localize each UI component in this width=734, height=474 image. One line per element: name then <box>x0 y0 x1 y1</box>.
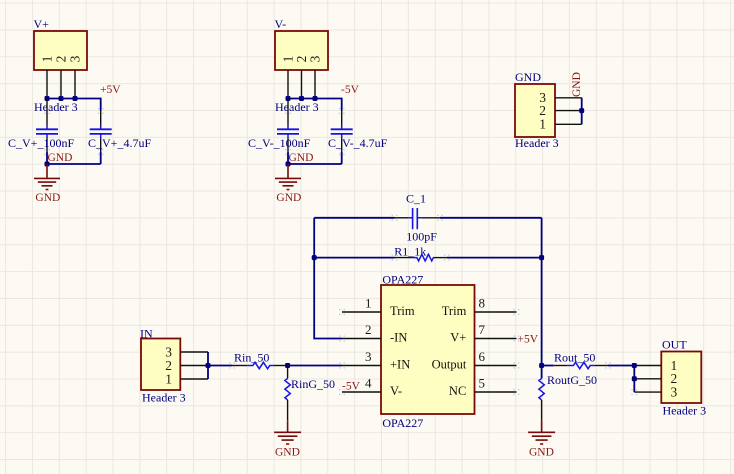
capacitor C_V+_4.7uF <box>90 111 112 153</box>
svg-text:3: 3 <box>308 55 323 62</box>
svg-text:+5V: +5V <box>100 84 121 96</box>
op-amp comment OPA227 <box>382 416 423 430</box>
pin 7 stub <box>475 338 517 340</box>
pin name V- (4) <box>390 384 402 398</box>
svg-text:NC: NC <box>449 384 466 398</box>
svg-text:2: 2 <box>365 322 372 337</box>
pin 2 number <box>539 103 546 118</box>
header V+ designator label <box>34 17 50 31</box>
wire feedback top right <box>440 217 542 219</box>
junction feedback right at R1 <box>539 255 544 260</box>
junction at pin 2 <box>579 108 584 113</box>
pin 3 number (rotated) <box>68 55 83 62</box>
wire feedback top left <box>314 217 394 219</box>
pin name NC (5) <box>449 384 466 398</box>
op-amp U1 body <box>381 285 475 414</box>
svg-text:100pF: 100pF <box>406 230 437 244</box>
svg-text:3: 3 <box>365 349 372 364</box>
capacitor C_V-_100nF label <box>248 136 311 150</box>
svg-text:V-: V- <box>390 384 402 398</box>
resistor R1 <box>395 254 447 261</box>
svg-text:4: 4 <box>365 376 372 391</box>
junction at pin1/rail <box>45 96 50 101</box>
header V- (Header 3) body <box>275 31 328 70</box>
capacitor C_V+_100nF label <box>8 136 74 150</box>
svg-text:1: 1 <box>165 371 172 386</box>
capacitor C_1 value label 100pF <box>406 230 437 244</box>
svg-text:1: 1 <box>539 117 546 132</box>
pin 3 number <box>671 384 678 399</box>
svg-text:+5V: +5V <box>518 334 539 346</box>
svg-text:V+: V+ <box>34 17 50 31</box>
svg-text:Header 3: Header 3 <box>663 404 707 418</box>
pin 2 number <box>365 322 372 337</box>
junction at IN pin 2 <box>206 363 211 368</box>
pin 2 number <box>671 371 678 386</box>
junction at pin2/rail <box>299 96 304 101</box>
capacitor C_V+_4.7uF label <box>88 136 151 150</box>
ground power-port label GND <box>529 446 554 458</box>
pin name V+ (7) <box>450 331 466 345</box>
svg-text:GND: GND <box>289 152 314 164</box>
pin 3 number (rotated) <box>308 55 323 62</box>
pin 1 number <box>671 358 678 373</box>
ground power-port label GND <box>275 446 300 458</box>
svg-text:Header 3: Header 3 <box>34 100 78 114</box>
header V- comment label <box>275 100 319 114</box>
wire GND rail below caps <box>288 152 342 164</box>
svg-text:1: 1 <box>365 296 372 311</box>
junction at pin1/rail <box>286 96 291 101</box>
ground symbol V+ section <box>34 164 60 190</box>
svg-text:3: 3 <box>671 384 678 399</box>
pin name Output (6) <box>432 358 467 372</box>
wire GND rail below caps <box>47 152 101 164</box>
pin 1 number <box>165 371 172 386</box>
svg-text:Trim: Trim <box>442 304 467 318</box>
svg-text:8: 8 <box>479 296 486 311</box>
wire joining GND header pins <box>581 98 583 125</box>
net label GND (rotated) <box>571 72 583 97</box>
header V+ (Header 3) body <box>34 31 87 70</box>
wire joining OUT header pins <box>633 366 635 393</box>
resistor RoutG_50 label <box>547 373 597 387</box>
junction output node <box>539 363 544 368</box>
ground power-port label GND <box>35 192 60 204</box>
resistor Rin_50 left lead <box>232 365 247 367</box>
junction feedback left <box>312 255 317 260</box>
svg-text:7: 7 <box>479 322 486 337</box>
pin 6 stub <box>475 365 517 367</box>
svg-text:V-: V- <box>275 17 287 31</box>
capacitor C_1 <box>395 208 441 229</box>
pin 4 number <box>365 376 372 391</box>
svg-text:-5V: -5V <box>342 380 361 392</box>
svg-text:GND: GND <box>35 192 60 204</box>
svg-text:C_V+_100nF: C_V+_100nF <box>8 136 74 150</box>
pin 5 number <box>479 376 486 391</box>
net label -5V at pin 4 <box>342 380 361 392</box>
pin name -IN (2) <box>390 331 407 345</box>
pin 2 number (rotated) <box>294 56 309 63</box>
pin 4 stub <box>342 391 381 393</box>
ground symbol input <box>274 420 301 444</box>
svg-text:GND: GND <box>571 72 583 97</box>
svg-text:Header 3: Header 3 <box>275 100 319 114</box>
header OUT (Header 3) body <box>661 352 701 404</box>
pin name +IN (3) <box>390 358 410 372</box>
svg-text:GND: GND <box>275 446 300 458</box>
svg-text:Output: Output <box>432 358 467 372</box>
op-amp designator OPA227 <box>382 273 423 287</box>
junction at pin2/rail <box>59 96 64 101</box>
svg-text:GND: GND <box>515 70 541 84</box>
resistor RinG_50 label <box>291 377 335 391</box>
wire output node to Rout <box>542 365 554 367</box>
header IN (Header 3) body <box>141 339 180 391</box>
pin 1 number (rotated) <box>281 56 296 63</box>
wire junction to op-amp pin 3 <box>288 365 342 367</box>
svg-text:V+: V+ <box>450 331 466 345</box>
pin name Trim (8) <box>442 304 467 318</box>
header GND (Header 3) body <box>515 84 555 137</box>
pin 3 number <box>165 344 172 359</box>
capacitor C_V+_100nF <box>36 99 58 153</box>
svg-text:Header 3: Header 3 <box>142 390 186 404</box>
pin 1 number (rotated) <box>40 56 55 63</box>
svg-text:3: 3 <box>68 55 83 62</box>
resistor Rin_50 zigzag <box>247 362 274 368</box>
net label GND <box>48 152 73 164</box>
wire IN to Rin <box>208 365 232 367</box>
header OUT designator label <box>662 338 687 352</box>
pin name Trim (1) <box>390 304 415 318</box>
pin stubs of header V- <box>288 70 315 99</box>
header GND designator label <box>515 70 541 84</box>
pin 2 stub <box>342 338 381 340</box>
svg-text:RoutG_50: RoutG_50 <box>547 373 597 387</box>
pin 1 number <box>539 117 546 132</box>
svg-text:2: 2 <box>54 56 69 63</box>
pin stubs of header V+ <box>47 70 75 99</box>
capacitor C_V-_4.7uF label <box>328 136 388 150</box>
ground power-port label GND <box>276 192 301 204</box>
header V+ comment label <box>34 100 78 114</box>
pin 6 number <box>479 349 486 364</box>
svg-text:Header 3: Header 3 <box>515 136 559 150</box>
resistor RinG_50 (vertical) <box>285 366 290 421</box>
net label GND <box>289 152 314 164</box>
resistor RoutG_50 (vertical) <box>539 366 544 421</box>
svg-text:C_V-_4.7uF: C_V-_4.7uF <box>328 136 388 150</box>
wire +5V rail <box>47 99 101 111</box>
svg-text:GND: GND <box>529 446 554 458</box>
svg-text:GND: GND <box>48 152 73 164</box>
junction input node <box>285 363 290 368</box>
capacitor C_V-_100nF <box>277 99 299 153</box>
wire feedback right vertical <box>541 218 543 366</box>
ground symbol V- section <box>275 164 301 190</box>
svg-text:C_1: C_1 <box>406 192 426 206</box>
pin stubs of header OUT <box>634 366 661 393</box>
svg-text:+IN: +IN <box>390 358 410 372</box>
pin 1 stub <box>342 311 381 313</box>
wire R1 right lead <box>447 257 542 259</box>
wire joining IN header pins <box>207 352 209 379</box>
wire R1 left lead <box>314 257 394 259</box>
pin 2 number <box>165 358 172 373</box>
svg-text:GND: GND <box>276 192 301 204</box>
net label -5V <box>341 84 360 96</box>
ground symbol output <box>528 420 555 444</box>
resistor Rin_50 label <box>234 351 269 365</box>
header IN comment label <box>142 390 186 404</box>
capacitor C_1 label <box>406 192 426 206</box>
pin 2 number (rotated) <box>54 56 69 63</box>
header IN designator label <box>140 326 153 340</box>
svg-text:OPA227: OPA227 <box>382 416 423 430</box>
svg-text:-IN: -IN <box>390 331 407 345</box>
resistor Rout_50 right lead <box>594 365 608 367</box>
pin 7 number <box>479 322 486 337</box>
resistor R1 label <box>394 244 426 258</box>
svg-text:5: 5 <box>479 376 486 391</box>
pin stubs of header GND <box>555 98 582 125</box>
svg-text:C_V+_4.7uF: C_V+_4.7uF <box>88 136 151 150</box>
header V- designator label <box>275 17 287 31</box>
wire Rout to OUT header <box>608 365 634 367</box>
junction at OUT pin 1 <box>632 363 637 368</box>
pin 3 number <box>365 349 372 364</box>
pin 1 number <box>365 296 372 311</box>
pin 3 stub <box>342 365 381 367</box>
resistor Rout_50 left lead <box>554 365 568 367</box>
svg-text:1: 1 <box>40 56 55 63</box>
header GND comment label <box>515 136 559 150</box>
pin 3 number <box>539 90 546 105</box>
resistor Rout_50 label <box>554 351 595 365</box>
pin 8 number <box>479 296 486 311</box>
pin endpoint markers <box>44 108 637 395</box>
resistor Rout_50 zigzag <box>568 362 595 368</box>
svg-text:OUT: OUT <box>662 338 687 352</box>
pin 5 stub <box>475 391 517 393</box>
wire -5V rail <box>288 99 342 111</box>
junction at pin3/rail <box>313 96 318 101</box>
svg-text:RinG_50: RinG_50 <box>291 377 335 391</box>
pin stubs of header IN <box>180 352 208 379</box>
pin 8 stub <box>475 311 517 313</box>
resistor Rin_50 right lead <box>274 365 288 367</box>
junction GND rail <box>286 162 291 167</box>
junction GND rail <box>45 162 50 167</box>
junction at OUT pin 2 <box>632 376 637 381</box>
svg-text:6: 6 <box>479 349 486 364</box>
net label +5V at pin 7 <box>518 334 539 346</box>
wire feedback left vertical to pin 2 <box>314 218 342 339</box>
capacitor C_V-_4.7uF <box>331 111 353 153</box>
header OUT comment label <box>663 404 707 418</box>
svg-text:C_V-_100nF: C_V-_100nF <box>248 136 311 150</box>
junction at pin3/rail <box>73 96 78 101</box>
svg-text:Trim: Trim <box>390 304 415 318</box>
net label +5V <box>100 84 121 96</box>
svg-text:-5V: -5V <box>341 84 360 96</box>
